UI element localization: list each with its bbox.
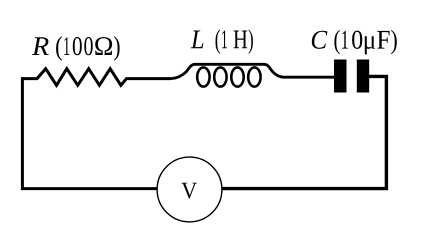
capacitor C right plate — [357, 60, 369, 93]
inductor L loop 2 — [214, 67, 226, 86]
inductor L loop 3 — [231, 67, 243, 86]
inductor L loop 4 — [248, 67, 260, 86]
wire left side and bottom-left — [22, 78, 157, 189]
label C value (10 uF) — [334, 30, 396, 55]
voltmeter V text — [181, 183, 197, 199]
label R value (100 ohm) — [56, 36, 120, 60]
resistor R — [21, 69, 171, 86]
label C — [312, 31, 328, 49]
label L — [191, 31, 204, 49]
label L value (1 H) — [216, 30, 253, 54]
voltmeter V circle — [157, 157, 222, 222]
inductor L loop 1 — [197, 67, 209, 86]
wire resistor to inductor, inductor top line, wire inductor to capacitor — [171, 64, 335, 78]
wire capacitor to right side and bottom-right — [222, 76, 386, 188]
label R — [32, 37, 49, 55]
capacitor C left plate — [334, 60, 347, 93]
